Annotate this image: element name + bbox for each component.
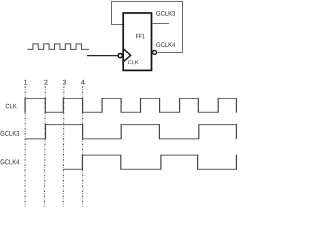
CLK waveform vertical edges: [25, 98, 236, 113]
dashed marker line 4: [82, 86, 84, 206]
node GCLK4 label: [156, 42, 175, 47]
inverter bubble on CLK input: [118, 54, 122, 58]
node marker 4: [81, 80, 85, 85]
GCLK4 waveform vertical edges: [82, 155, 236, 170]
GCLK4 waveform label: [1, 159, 20, 164]
clock triangle on CLK pin: [123, 49, 131, 62]
flip-flop FF1: [123, 13, 151, 70]
node marker 3: [63, 80, 66, 85]
CLK pin label: [128, 60, 139, 64]
dashed marker line 3: [62, 86, 65, 206]
GCLK3 waveform horizontals: [25, 125, 236, 139]
FF1 label: [136, 34, 145, 38]
node GCLK3 label: [156, 11, 175, 16]
wire CLK input: [87, 55, 117, 57]
wire GCLK3 output stub: [152, 23, 169, 25]
GCLK4 waveform horizontals: [63, 155, 236, 169]
CLK waveform label: [6, 104, 17, 109]
node marker 1: [24, 80, 27, 85]
inverter bubble on GCLK4 output: [153, 50, 157, 54]
CLK waveform horizontals: [25, 99, 236, 113]
dashed marker line 1: [24, 86, 26, 206]
wire feedback path from GCLK4 output around to D input: [112, 2, 183, 53]
dashed marker line 2: [44, 86, 47, 206]
GCLK3 waveform vertical edges: [46, 124, 237, 139]
node marker 2: [44, 80, 47, 85]
GCLK3 waveform label: [1, 131, 20, 136]
clock source square wave glyph: [28, 44, 90, 50]
